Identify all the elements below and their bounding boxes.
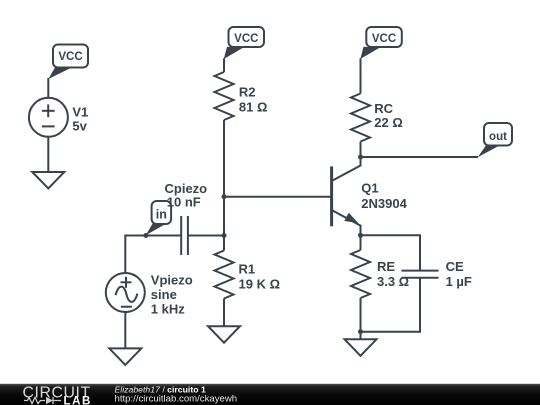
voltage source V1 <box>29 98 68 137</box>
svg-text:22 Ω: 22 Ω <box>374 115 403 130</box>
svg-text:1 µF: 1 µF <box>446 274 472 289</box>
wire Cpiezo to base node <box>188 235 224 237</box>
svg-text:CE: CE <box>446 259 464 274</box>
wire VCC badge to V1 top <box>47 78 49 99</box>
junction RE bottom node <box>358 329 363 334</box>
svg-text:RC: RC <box>374 101 393 116</box>
svg-text:2N3904: 2N3904 <box>361 196 407 211</box>
source Vpiezo <box>106 273 145 312</box>
label Q1 value <box>361 180 407 211</box>
wire base node to Q1 base <box>224 196 332 198</box>
svg-text:out: out <box>489 131 507 143</box>
svg-text:1 kHz: 1 kHz <box>151 302 185 317</box>
wire Vpiezo to ground <box>124 312 126 348</box>
capacitor Cpiezo <box>181 216 188 255</box>
svg-text:81 Ω: 81 Ω <box>239 100 268 115</box>
svg-text:V1: V1 <box>72 104 88 119</box>
svg-text:RE: RE <box>377 259 395 274</box>
svg-text:VCC: VCC <box>58 51 82 63</box>
junction in node <box>143 233 148 238</box>
capacitor CE <box>402 271 439 278</box>
label RC value <box>374 101 403 130</box>
svg-text:Q1: Q1 <box>361 180 378 195</box>
ground (below Vpiezo) <box>109 348 141 365</box>
wire V1 to ground <box>47 137 49 172</box>
svg-text:Vpiezo: Vpiezo <box>151 273 193 288</box>
wire RC to collector node <box>360 142 362 158</box>
wire VCC badge 2 to R2 <box>223 58 225 72</box>
resistor R2 <box>215 72 234 120</box>
svg-text:3.3 Ω: 3.3 Ω <box>377 274 409 289</box>
node in badge <box>146 201 171 235</box>
label V1 value <box>72 104 88 133</box>
wire R2 bottom through base node to R1 top <box>223 120 225 251</box>
label R2 value <box>239 85 268 115</box>
wire VCC badge 3 to RC <box>360 58 362 93</box>
wire collector node to out <box>361 156 479 158</box>
svg-text:LAB: LAB <box>64 395 92 405</box>
resistor RE <box>351 250 370 298</box>
label Vpiezo value <box>151 273 193 317</box>
svg-text:10 nF: 10 nF <box>167 194 201 209</box>
transistor Q1 <box>332 157 361 235</box>
svg-text:http://circuitlab.com/ckayewh: http://circuitlab.com/ckayewh <box>115 394 238 405</box>
junction collector node <box>358 155 363 160</box>
svg-text:in: in <box>156 208 167 222</box>
wire CE bottom to RE bottom node <box>361 278 421 332</box>
svg-text:5v: 5v <box>72 119 87 134</box>
node VCC badge 3 <box>360 27 402 59</box>
wire emitter node to RE <box>360 235 362 250</box>
label CE value <box>446 259 472 289</box>
ground (below V1) <box>32 172 64 189</box>
footer logo resistor-diode glyph <box>24 397 61 404</box>
svg-text:sine: sine <box>151 287 177 302</box>
svg-text:R2: R2 <box>239 85 256 100</box>
svg-text:19 K Ω: 19 K Ω <box>239 276 281 291</box>
node VCC badge 2 <box>224 27 264 59</box>
node out badge <box>478 123 512 157</box>
wire R1 to ground <box>223 299 225 327</box>
wire RE to ground <box>360 298 362 339</box>
ground (below RE) <box>345 339 377 356</box>
footer bar <box>0 384 540 405</box>
svg-text:VCC: VCC <box>234 33 258 45</box>
svg-text:VCC: VCC <box>372 33 396 45</box>
wire emitter node to CE top <box>361 235 421 270</box>
junction cap right node <box>222 233 227 238</box>
junction emitter node <box>358 233 363 238</box>
label RE value <box>377 259 409 289</box>
ground (below R1) <box>208 326 240 343</box>
label Cpiezo value <box>165 181 208 209</box>
label R1 value <box>239 261 281 291</box>
resistor RC <box>351 94 370 142</box>
junction base node <box>222 194 227 199</box>
wire Vpiezo top to capacitor <box>125 236 181 274</box>
svg-text:R1: R1 <box>239 261 256 276</box>
node VCC badge 1 <box>48 45 88 80</box>
resistor R1 <box>215 251 234 299</box>
